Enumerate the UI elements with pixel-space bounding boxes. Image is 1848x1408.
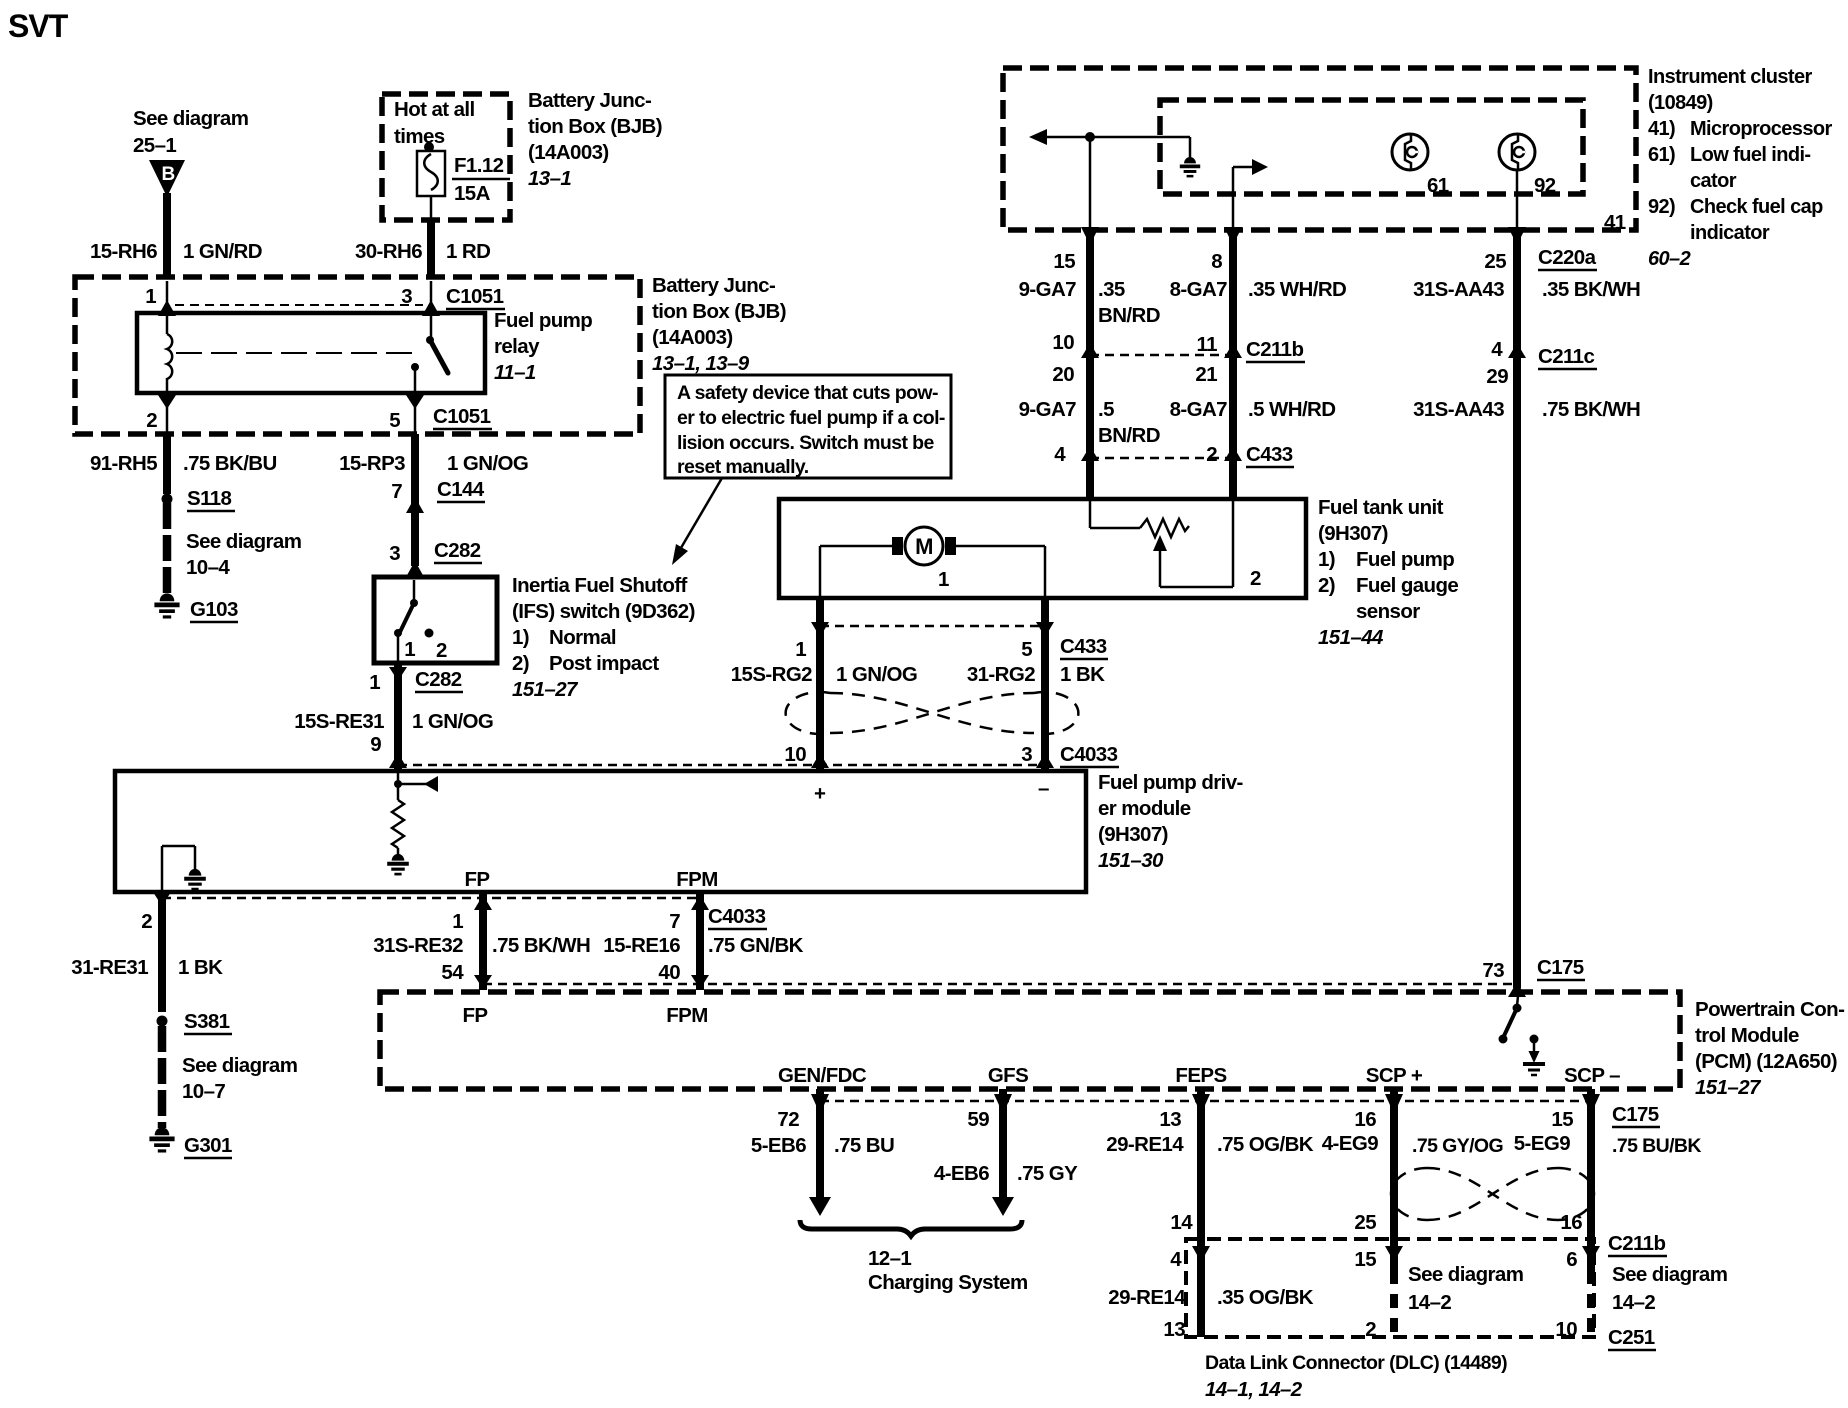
- svg-text:(9H307): (9H307): [1098, 823, 1168, 846]
- svg-text:(10849): (10849): [1648, 92, 1713, 114]
- connector row C211b: [1052, 331, 1305, 362]
- PCM internal ground: [1523, 1035, 1545, 1076]
- svg-text:Fuel gauge: Fuel gauge: [1356, 574, 1458, 597]
- DLC pin labels top: [1170, 1248, 1577, 1271]
- svg-text:1: 1: [452, 910, 463, 933]
- indicator bulb 92: [1499, 134, 1535, 170]
- svg-text:C251: C251: [1608, 1326, 1655, 1349]
- connector C282 top: [434, 539, 482, 563]
- svg-text:8: 8: [1211, 250, 1222, 273]
- svg-text:1: 1: [404, 638, 415, 661]
- relay internal dash-dot line: [176, 352, 416, 354]
- box Inertia Fuel Shutoff switch: [374, 577, 497, 663]
- wire IFS to FPDM (15S-RE31 1 GN/OG): [394, 663, 402, 769]
- svg-text:C282: C282: [415, 668, 462, 691]
- svg-text:13: 13: [1163, 1318, 1185, 1341]
- off-page connector B (triangle): [149, 160, 185, 197]
- connector label C1051 top: [446, 285, 505, 309]
- box Battery Junction Box BJB (dashed): [75, 277, 640, 434]
- svg-text:6: 6: [1566, 1248, 1577, 1271]
- svg-text:indicator: indicator: [1690, 222, 1770, 244]
- label data link connector: [1205, 1352, 1507, 1401]
- svg-text:16: 16: [1354, 1108, 1376, 1131]
- connector label C1051 bottom: [433, 405, 492, 429]
- svg-text:S381: S381: [184, 1010, 230, 1033]
- connector C211c arrow: [1486, 338, 1597, 388]
- wire bulb92 to pin25: [1508, 170, 1526, 245]
- connector row C175 above PCM: [483, 983, 1517, 986]
- svg-text:(9H307): (9H307): [1318, 522, 1388, 545]
- svg-text:er module: er module: [1098, 797, 1191, 820]
- wire SCP+ down (4-EG9 .75 GY/OG): [1385, 1089, 1403, 1337]
- labels pins 20 21: [1052, 363, 1217, 386]
- relay pin2 exit arrow: [158, 393, 176, 432]
- svg-text:72: 72: [777, 1108, 799, 1131]
- svg-text:20: 20: [1052, 363, 1074, 386]
- internal dashed link pins 1-3: [175, 304, 423, 306]
- svg-text:SCP +: SCP +: [1366, 1064, 1423, 1087]
- svg-text:Normal: Normal: [549, 626, 616, 649]
- box instrument cluster inner (dashed): [1160, 100, 1583, 194]
- splice S118: [162, 487, 236, 511]
- labels pin2 31-RE31 1 BK: [71, 910, 223, 979]
- svg-text:Powertrain Con-: Powertrain Con-: [1695, 998, 1844, 1021]
- wire FPM down to PCM (15-RE16 .75 GN/BK): [691, 892, 709, 990]
- svg-text:.75 OG/BK: .75 OG/BK: [1217, 1133, 1314, 1156]
- wire pin3 into relay with arrow: [422, 281, 440, 316]
- svg-text:See diagram: See diagram: [186, 530, 301, 553]
- svg-text:GFS: GFS: [988, 1064, 1028, 1087]
- svg-text:14–2: 14–2: [1612, 1291, 1655, 1314]
- wire FP down to PCM (31S-RE32 .75 BK/WH): [474, 892, 492, 990]
- svg-text:15S-RG2: 15S-RG2: [731, 663, 812, 686]
- fuel pump relay box: [137, 313, 485, 393]
- ground G301: [149, 1127, 232, 1158]
- ground G103: [154, 593, 238, 622]
- svg-text:C433: C433: [1246, 443, 1293, 466]
- labels GEN/FDC pin72: [751, 1108, 894, 1157]
- svg-text:1: 1: [145, 285, 156, 308]
- svg-text:M: M: [915, 534, 933, 559]
- svg-text:.5: .5: [1098, 398, 1114, 421]
- svg-text:30-RH6: 30-RH6: [355, 240, 422, 263]
- labels row 14 25 16: [1170, 1211, 1582, 1234]
- svg-text:92): 92): [1648, 196, 1675, 218]
- svg-text:Post impact: Post impact: [549, 652, 659, 675]
- svg-text:31-RE31: 31-RE31: [71, 956, 148, 979]
- label Inertia Fuel Shutoff (IFS) switch: [512, 574, 695, 701]
- svg-text:1 BK: 1 BK: [178, 956, 223, 979]
- PCM FP FPM labels: [463, 1004, 708, 1027]
- connector row C433 upper: [1054, 443, 1294, 467]
- svg-text:Check fuel cap: Check fuel cap: [1690, 196, 1823, 218]
- svg-text:1 BK: 1 BK: [1060, 663, 1105, 686]
- box data link connector DLC (dashed): [1186, 1239, 1594, 1337]
- svg-text:reset manually.: reset manually.: [677, 456, 809, 478]
- svg-text:151–44: 151–44: [1318, 626, 1384, 649]
- svg-text:25: 25: [1484, 250, 1506, 273]
- label PCM legend: [1695, 998, 1844, 1099]
- svg-text:4: 4: [1491, 338, 1503, 361]
- svg-text:C175: C175: [1537, 956, 1584, 979]
- relay coil: [167, 313, 172, 393]
- svg-text:C144: C144: [437, 478, 485, 501]
- svg-text:59: 59: [967, 1108, 989, 1131]
- svg-text:FP: FP: [463, 1004, 488, 1027]
- twisted pair symbol SCP wires: [1391, 1168, 1594, 1220]
- svg-text:See diagram: See diagram: [1408, 1263, 1523, 1286]
- wire BJB pin5 down (15-RP3 1 GN/OG): [411, 434, 419, 512]
- svg-text:See diagram: See diagram: [182, 1054, 297, 1077]
- fuel pump motor M: [892, 527, 956, 565]
- svg-text:2: 2: [1206, 443, 1217, 466]
- svg-text:.75 GY/OG: .75 GY/OG: [1412, 1135, 1503, 1157]
- connector C144: [437, 478, 485, 502]
- svg-text:See diagram: See diagram: [133, 107, 248, 130]
- svg-text:4-EB6: 4-EB6: [934, 1162, 989, 1185]
- fuel gauge sender resistor: [1090, 500, 1189, 537]
- IFS exit arrow and pin1 C282: [369, 667, 463, 694]
- svg-text:(PCM) (12A650): (PCM) (12A650): [1695, 1050, 1837, 1073]
- svg-text:Charging System: Charging System: [868, 1271, 1028, 1294]
- svg-text:times: times: [394, 125, 445, 148]
- wire pin1 into relay with arrow: [158, 281, 176, 316]
- FPDM plus minus labels: [814, 777, 1049, 805]
- relay switch contact: [411, 313, 448, 393]
- svg-text:2): 2): [512, 652, 529, 675]
- svg-text:15-RH6: 15-RH6: [90, 240, 157, 263]
- svg-text:FPM: FPM: [676, 868, 717, 891]
- label instrument cluster legend: [1648, 66, 1832, 270]
- svg-text:.75 BK/WH: .75 BK/WH: [1542, 398, 1640, 421]
- labels FEPS pin13: [1106, 1108, 1314, 1156]
- FPDM FP FPM labels: [465, 868, 718, 891]
- svg-text:7: 7: [391, 480, 402, 503]
- dashed wire to G103: [163, 503, 172, 596]
- svg-text:14: 14: [1170, 1211, 1193, 1234]
- svg-text:C4033: C4033: [1060, 743, 1118, 766]
- labels GFS pin59: [934, 1108, 1078, 1185]
- svg-text:+: +: [814, 782, 826, 805]
- labels FP FPM connector C4033: [373, 905, 803, 984]
- svg-text:.35: .35: [1098, 278, 1125, 301]
- svg-text:Inertia Fuel Shutoff: Inertia Fuel Shutoff: [512, 574, 688, 597]
- svg-text:cator: cator: [1690, 170, 1737, 192]
- fuse F1.12 15A: [417, 142, 445, 196]
- cluster wire pin8 with right arrow: [1224, 159, 1268, 245]
- svg-text:61: 61: [1427, 174, 1449, 197]
- svg-text:trol Module: trol Module: [1695, 1024, 1799, 1047]
- svg-text:FPM: FPM: [666, 1004, 707, 1027]
- svg-text:tion Box (BJB): tion Box (BJB): [528, 115, 662, 138]
- cluster microprocessor wire pin15: [1081, 137, 1099, 245]
- svg-text:C211b: C211b: [1246, 338, 1303, 361]
- cluster left arrow wire: [1029, 129, 1190, 145]
- twisted pair symbol tank wires: [786, 692, 1079, 734]
- svg-text:1 GN/OG: 1 GN/OG: [412, 710, 493, 733]
- wire tank pin5 down (31-RG2 1 BK): [1041, 598, 1049, 769]
- label pin73 C175: [1482, 956, 1585, 997]
- svg-text:1): 1): [512, 626, 529, 649]
- svg-text:Hot at all: Hot at all: [394, 98, 475, 121]
- svg-text:GEN/FDC: GEN/FDC: [778, 1064, 867, 1087]
- svg-text:er to electric fuel pump if a: er to electric fuel pump if a col-: [677, 407, 945, 429]
- svg-text:1: 1: [369, 671, 380, 694]
- svg-text:tion Box (BJB): tion Box (BJB): [652, 300, 786, 323]
- callout box safety device note: [665, 375, 951, 478]
- svg-text:13–1: 13–1: [528, 167, 571, 190]
- connector row below PCM: [820, 1100, 1591, 1103]
- svg-text:15: 15: [1354, 1248, 1376, 1271]
- svg-text:1 GN/RD: 1 GN/RD: [183, 240, 262, 263]
- svg-text:2: 2: [1365, 1318, 1376, 1341]
- svg-text:sensor: sensor: [1356, 600, 1420, 623]
- svg-text:2: 2: [1250, 567, 1261, 590]
- svg-text:SVT: SVT: [8, 8, 69, 44]
- svg-text:C282: C282: [434, 539, 481, 562]
- relay pin5 exit arrow: [406, 393, 424, 432]
- svg-text:.75 GN/BK: .75 GN/BK: [708, 934, 804, 957]
- wire pin15 down to fuel tank (9-GA7): [1086, 230, 1094, 500]
- indicator bulb 61: [1392, 134, 1428, 170]
- callout text: [677, 382, 945, 478]
- note See diagram 25-1: [133, 107, 248, 157]
- svg-text:C211c: C211c: [1538, 345, 1594, 368]
- wire GEN/FDC down (5-EB6 .75 BU): [809, 1089, 831, 1216]
- svg-text:2: 2: [146, 409, 157, 432]
- svg-text:31S-RE32: 31S-RE32: [373, 934, 463, 957]
- svg-text:5-EG9: 5-EG9: [1514, 1132, 1570, 1155]
- svg-text:41: 41: [1604, 211, 1626, 234]
- labels SCP- pin15 C175: [1514, 1103, 1702, 1157]
- wire FEPS down (29-RE14 .75 OG/BK): [1192, 1089, 1210, 1337]
- svg-text:C1051: C1051: [446, 285, 504, 308]
- svg-text:1 GN/OG: 1 GN/OG: [447, 452, 528, 475]
- svg-text:10–7: 10–7: [182, 1080, 225, 1103]
- wire BJB pin2 down (91-RH5 .75 BK/BU): [163, 434, 171, 494]
- charging system bracket: [800, 1220, 1022, 1236]
- label Hot at all times: [394, 98, 475, 148]
- svg-text:B: B: [161, 164, 174, 185]
- PCM bottom pin labels: [778, 1064, 1620, 1087]
- svg-text:15-RP3: 15-RP3: [339, 452, 405, 475]
- IFS switch internals: [394, 580, 434, 663]
- connector C211b label right: [1608, 1232, 1667, 1256]
- svg-text:.75 BU: .75 BU: [834, 1134, 894, 1157]
- svg-text:Instrument cluster: Instrument cluster: [1648, 66, 1812, 88]
- svg-text:FEPS: FEPS: [1175, 1064, 1226, 1087]
- svg-text:BN/RD: BN/RD: [1098, 304, 1160, 327]
- svg-text:41): 41): [1648, 118, 1675, 140]
- svg-text:73: 73: [1482, 959, 1504, 982]
- svg-text:See diagram: See diagram: [1612, 1263, 1727, 1286]
- connector arrow C144: [406, 497, 424, 566]
- box fuel pump driver module: [115, 771, 1086, 892]
- svg-text:11: 11: [1197, 333, 1218, 356]
- wire FPDM pin2 down (31-RE31 1 BK): [153, 892, 171, 1012]
- svg-text:Battery Junc-: Battery Junc-: [528, 89, 651, 112]
- svg-text:A safety device that cuts pow-: A safety device that cuts pow-: [677, 382, 938, 404]
- svg-text:10–4: 10–4: [186, 556, 230, 579]
- svg-text:151–27: 151–27: [1695, 1076, 1762, 1099]
- wire SCP- down (5-EG9 .75 BU/BK): [1582, 1089, 1600, 1337]
- box fuel tank unit: [779, 499, 1306, 598]
- svg-text:(14A003): (14A003): [652, 326, 733, 349]
- svg-text:13: 13: [1159, 1108, 1181, 1131]
- PCM internal switch pin73: [1499, 996, 1522, 1044]
- svg-text:2: 2: [141, 910, 152, 933]
- motor wires in tank: [820, 546, 1045, 598]
- svg-text:C220a: C220a: [1538, 246, 1597, 269]
- labels wire codes row2: [1019, 398, 1641, 447]
- svg-text:15S-RE31: 15S-RE31: [294, 710, 384, 733]
- wire B to BJB pin1 (15-RH6 1 GN/RD): [163, 193, 171, 279]
- svg-text:21: 21: [1195, 363, 1217, 386]
- svg-text:C1051: C1051: [433, 405, 491, 428]
- connector arrow into FPDM pin9: [389, 753, 407, 768]
- label Fuel pump relay 11-1: [494, 309, 592, 384]
- svg-text:.5 WH/RD: .5 WH/RD: [1248, 398, 1335, 421]
- connector row C4033: [398, 743, 1119, 768]
- svg-text:10: 10: [1555, 1318, 1577, 1341]
- svg-text:13–1, 13–9: 13–1, 13–9: [652, 352, 750, 375]
- wire pin8 down to fuel tank (8-GA7): [1229, 230, 1237, 500]
- svg-text:15-RE16: 15-RE16: [603, 934, 680, 957]
- sender wiper arm: [1153, 500, 1233, 587]
- svg-text:9-GA7: 9-GA7: [1019, 398, 1077, 421]
- IFS contact labels 1 2: [404, 638, 447, 662]
- svg-text:92: 92: [1534, 174, 1556, 197]
- svg-text:5-EB6: 5-EB6: [751, 1134, 806, 1157]
- dashed wire to G301: [158, 1026, 167, 1128]
- svg-text:11–1: 11–1: [494, 361, 536, 384]
- svg-text:91-RH5: 91-RH5: [90, 452, 157, 475]
- svg-text:60–2: 60–2: [1648, 248, 1691, 270]
- svg-text:31S-AA43: 31S-AA43: [1413, 398, 1504, 421]
- DLC pin labels bottom: [1163, 1318, 1577, 1341]
- svg-text:.75 GY: .75 GY: [1017, 1162, 1078, 1185]
- svg-text:Fuel pump driv-: Fuel pump driv-: [1098, 771, 1243, 794]
- svg-text:G103: G103: [190, 598, 238, 621]
- wire pin25 down to PCM pin73 (31S-AA43): [1513, 230, 1521, 988]
- svg-text:SCP –: SCP –: [1564, 1064, 1620, 1087]
- callout arrow: [672, 478, 722, 565]
- svg-text:.35 BK/WH: .35 BK/WH: [1542, 278, 1640, 301]
- svg-text:C433: C433: [1060, 635, 1107, 658]
- svg-text:.35 WH/RD: .35 WH/RD: [1248, 278, 1346, 301]
- svg-text:10: 10: [1052, 331, 1074, 354]
- labels FEPS lower 29-RE14 .35 OG/BK: [1108, 1286, 1314, 1309]
- connector C220a: [1538, 246, 1597, 270]
- svg-text:15A: 15A: [454, 182, 491, 205]
- svg-text:4-EG9: 4-EG9: [1322, 1132, 1378, 1155]
- svg-text:lision occurs. Switch must be: lision occurs. Switch must be: [677, 432, 934, 454]
- svg-text:1: 1: [938, 568, 949, 591]
- svg-text:1): 1): [1318, 548, 1335, 571]
- label fuel tank unit legend: [1318, 496, 1458, 649]
- note See diagram 10-7: [182, 1054, 297, 1103]
- svg-text:1 GN/OG: 1 GN/OG: [836, 663, 917, 686]
- svg-text:Fuel pump: Fuel pump: [1356, 548, 1454, 571]
- label Battery Junction Box (BJB) 14A003 13-1 13-9 (right): [652, 274, 786, 375]
- svg-text:54: 54: [441, 961, 464, 984]
- splice S381: [157, 1010, 233, 1034]
- svg-text:Data Link Connector (DLC) (144: Data Link Connector (DLC) (14489): [1205, 1352, 1507, 1374]
- label 12-1 Charging System: [868, 1247, 1028, 1294]
- svg-text:4: 4: [1054, 443, 1066, 466]
- svg-text:61): 61): [1648, 144, 1675, 166]
- svg-text:5: 5: [1021, 638, 1032, 661]
- svg-text:40: 40: [658, 961, 680, 984]
- FPDM internal ground left: [162, 846, 206, 890]
- svg-text:G301: G301: [184, 1134, 232, 1157]
- svg-text:14–1, 14–2: 14–1, 14–2: [1205, 1378, 1303, 1401]
- label F1.12 / 15A: [452, 154, 510, 205]
- svg-text:29: 29: [1486, 365, 1508, 388]
- svg-text:15: 15: [1053, 250, 1075, 273]
- connector row C433 lower: [795, 622, 1108, 686]
- svg-text:Low fuel indi-: Low fuel indi-: [1690, 144, 1810, 166]
- connector C251 label: [1608, 1326, 1656, 1350]
- svg-text:14–2: 14–2: [1408, 1291, 1451, 1314]
- svg-text:1 RD: 1 RD: [446, 240, 490, 263]
- svg-text:151–30: 151–30: [1098, 849, 1164, 872]
- svg-text:8-GA7: 8-GA7: [1170, 278, 1228, 301]
- svg-text:3: 3: [1021, 743, 1032, 766]
- wire GFS down (4-EB6 .75 GY): [992, 1089, 1014, 1216]
- box powertrain control module PCM (dashed): [380, 992, 1680, 1089]
- labels wire codes row1: [1019, 278, 1641, 327]
- svg-text:5: 5: [389, 409, 400, 432]
- svg-text:(IFS) switch (9D362): (IFS) switch (9D362): [512, 600, 695, 623]
- svg-text:relay: relay: [494, 335, 540, 358]
- svg-text:Battery Junc-: Battery Junc-: [652, 274, 775, 297]
- svg-text:Fuel pump: Fuel pump: [494, 309, 592, 332]
- svg-text:S118: S118: [187, 487, 232, 510]
- svg-text:3: 3: [389, 542, 400, 565]
- svg-text:C211b: C211b: [1608, 1232, 1665, 1255]
- svg-text:15: 15: [1551, 1108, 1573, 1131]
- svg-text:2: 2: [436, 639, 447, 662]
- note See diagram 10-4: [186, 530, 301, 579]
- svg-text:(14A003): (14A003): [528, 141, 609, 164]
- svg-text:–: –: [1038, 777, 1049, 800]
- svg-text:10: 10: [784, 743, 806, 766]
- svg-text:16: 16: [1560, 1211, 1582, 1234]
- svg-text:.75 BU/BK: .75 BU/BK: [1612, 1135, 1701, 1157]
- svg-text:9-GA7: 9-GA7: [1019, 278, 1077, 301]
- svg-text:1: 1: [795, 638, 806, 661]
- svg-text:Fuel tank unit: Fuel tank unit: [1318, 496, 1444, 519]
- svg-text:31-RG2: 31-RG2: [967, 663, 1035, 686]
- wire tank pin1 down (15S-RG2 1 GN/OG): [816, 598, 824, 769]
- svg-text:.35 OG/BK: .35 OG/BK: [1217, 1286, 1314, 1309]
- svg-text:29-RE14: 29-RE14: [1108, 1286, 1186, 1309]
- svg-text:4: 4: [1170, 1248, 1182, 1271]
- svg-text:.75 BK/WH: .75 BK/WH: [492, 934, 590, 957]
- svg-text:C175: C175: [1612, 1103, 1659, 1126]
- svg-text:25–1: 25–1: [133, 134, 176, 157]
- label fuel pump driver module legend: [1098, 771, 1243, 872]
- cluster internal ground: [1180, 137, 1200, 176]
- svg-text:31S-AA43: 31S-AA43: [1413, 278, 1504, 301]
- wire fuse to BJB pin3 (30-RH6 1 RD): [430, 196, 433, 279]
- svg-text:Microprocessor: Microprocessor: [1690, 118, 1832, 140]
- DLC see diagram right: [1612, 1263, 1727, 1314]
- svg-text:12–1: 12–1: [868, 1247, 911, 1270]
- svg-text:FP: FP: [465, 868, 490, 891]
- svg-text:BN/RD: BN/RD: [1098, 424, 1160, 447]
